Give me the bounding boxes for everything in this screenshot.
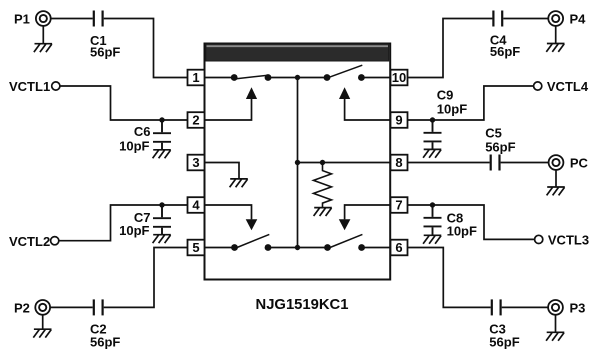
- label C2 56pF: [90, 322, 120, 350]
- capacitor C5: [491, 155, 500, 171]
- wire P1 to ground: [42, 26, 44, 44]
- wire pin 8 internal: [298, 162, 391, 164]
- ground C9: [423, 149, 441, 157]
- capacitor C4: [493, 11, 502, 27]
- pin 9: [391, 112, 408, 128]
- wire VCTL1 to pin 2: [60, 86, 188, 120]
- svg-text:56pF: 56pF: [490, 44, 520, 59]
- switch SW2 center-pin 10 (open): [324, 65, 365, 81]
- wire pin 9 to VCTL4: [408, 86, 534, 120]
- svg-text:4: 4: [192, 198, 200, 213]
- pin 7: [391, 197, 408, 213]
- svg-text:10pF: 10pF: [437, 102, 467, 117]
- wire PC to ground: [555, 170, 557, 187]
- wire P2 to ground: [42, 315, 44, 329]
- capacitor C3: [492, 299, 501, 315]
- capacitor C1: [94, 11, 103, 27]
- ground P1: [34, 44, 52, 52]
- IC U1 top index bar: [206, 44, 389, 61]
- switch SW3 pin 5-center (open): [231, 234, 271, 251]
- control arrow from pin 4: [205, 205, 258, 230]
- ground P4: [546, 44, 564, 52]
- svg-text:P1: P1: [14, 12, 30, 27]
- control arrow from pin 2: [205, 87, 258, 120]
- wire P1 to C1: [51, 18, 93, 20]
- wire P4 to ground: [555, 26, 557, 44]
- node C9 junction: [430, 117, 435, 122]
- wire top rail pin1 side: [205, 77, 235, 79]
- svg-text:7: 7: [395, 198, 402, 213]
- wire C5 to PC: [501, 162, 549, 164]
- connector P3: [548, 300, 563, 315]
- connector P4: [548, 11, 563, 26]
- terminal VCTL2: [51, 237, 59, 245]
- label C7 10pF: [119, 210, 150, 238]
- connector P2: [35, 300, 50, 315]
- label C1 56pF: [90, 33, 120, 60]
- node bottom center: [295, 245, 300, 250]
- pin 5: [188, 240, 205, 256]
- switch SW4 center-pin 6 (open): [324, 234, 365, 251]
- svg-text:56pF: 56pF: [90, 44, 120, 59]
- pin 6: [391, 240, 408, 256]
- wire P3 to ground: [555, 315, 557, 332]
- wire center vertical: [297, 78, 299, 248]
- ground pin 3: [230, 179, 248, 187]
- label C3 56pF: [489, 322, 519, 350]
- connector P1: [36, 11, 51, 26]
- svg-text:56pF: 56pF: [90, 335, 120, 350]
- svg-text:VCTL3: VCTL3: [548, 233, 589, 248]
- svg-text:NJG1519KC1: NJG1519KC1: [256, 297, 349, 313]
- wire pin 10 to C4: [408, 19, 493, 78]
- capacitor C6: [153, 120, 171, 150]
- label C9 10pF: [437, 87, 467, 116]
- svg-text:3: 3: [192, 155, 199, 170]
- svg-text:P3: P3: [570, 301, 586, 316]
- svg-text:8: 8: [395, 155, 402, 170]
- wire C1 to pin 1: [104, 19, 188, 78]
- svg-text:2: 2: [192, 113, 199, 128]
- node C6 junction: [159, 117, 164, 122]
- wire bottom rail pin5 side: [205, 247, 235, 249]
- wire pin 6 to C3: [408, 248, 491, 308]
- svg-text:6: 6: [395, 240, 402, 255]
- pin 8: [391, 155, 408, 171]
- node center mid: [295, 160, 300, 165]
- capacitor C2: [94, 299, 103, 315]
- wire bottom rail middle: [268, 247, 328, 249]
- ground P3: [546, 332, 564, 340]
- wire bottom rail pin6 side: [362, 247, 391, 249]
- wire P2 to C2: [50, 306, 93, 308]
- svg-text:C5: C5: [485, 125, 502, 140]
- ground C7: [153, 235, 171, 243]
- svg-text:56pF: 56pF: [485, 139, 515, 154]
- wire pin 8 to C5: [408, 162, 490, 164]
- switch SW1 pins 1-center (closed): [231, 74, 272, 81]
- label C5 56pF: [485, 125, 515, 154]
- capacitor C7: [153, 205, 171, 235]
- terminal VCTL3: [535, 235, 543, 243]
- connector PC: [549, 155, 564, 170]
- svg-text:10pF: 10pF: [119, 138, 149, 153]
- node C8 junction: [430, 202, 435, 207]
- pin 3: [188, 155, 205, 171]
- node top center: [295, 75, 300, 80]
- svg-text:9: 9: [395, 113, 402, 128]
- ground R1: [314, 208, 332, 216]
- wire C3 to P3: [502, 306, 548, 308]
- ground PC: [547, 187, 565, 195]
- svg-text:VCTL2: VCTL2: [9, 234, 50, 249]
- capacitor C9: [424, 120, 442, 149]
- label C6 10pF: [119, 124, 150, 153]
- wire VCTL2 to pin 4: [59, 205, 188, 241]
- svg-text:56pF: 56pF: [489, 335, 519, 350]
- wire pin 7 to VCTL3: [408, 205, 535, 239]
- label C4 56pF: [490, 33, 520, 60]
- wire top rail middle: [268, 77, 327, 79]
- ground C8: [423, 235, 441, 243]
- capacitor C8: [424, 205, 442, 235]
- ground P2: [33, 329, 51, 337]
- wire C2 to pin 5: [104, 248, 188, 308]
- svg-text:C6: C6: [134, 124, 151, 139]
- svg-text:VCTL1: VCTL1: [9, 79, 50, 94]
- pin 1: [188, 70, 205, 86]
- svg-text:10pF: 10pF: [119, 223, 149, 238]
- pin 2: [188, 112, 205, 128]
- svg-text:PC: PC: [570, 156, 589, 171]
- pin 4: [188, 197, 205, 213]
- node resistor junction: [320, 160, 325, 165]
- wire top rail pin10 side: [361, 77, 390, 79]
- svg-text:C9: C9: [437, 87, 454, 102]
- control arrow from pin 7: [339, 205, 390, 230]
- terminal VCTL4: [534, 82, 542, 90]
- control arrow from pin 9: [339, 87, 390, 120]
- node C7 junction: [159, 202, 164, 207]
- svg-text:10pF: 10pF: [447, 224, 477, 239]
- svg-text:VCTL4: VCTL4: [547, 79, 589, 94]
- svg-text:P2: P2: [14, 301, 30, 316]
- svg-text:10: 10: [392, 70, 406, 85]
- label C8 10pF: [447, 210, 477, 238]
- ground C6: [153, 150, 171, 158]
- svg-text:5: 5: [192, 240, 199, 255]
- svg-text:1: 1: [192, 70, 199, 85]
- IC U1 body: [205, 44, 391, 280]
- resistor R1: [314, 163, 332, 208]
- wire pin 3 internal: [205, 163, 240, 179]
- terminal VCTL1: [52, 82, 60, 90]
- wire C4 to P4: [503, 18, 548, 20]
- pin 10: [391, 70, 408, 86]
- svg-text:P4: P4: [570, 12, 587, 27]
